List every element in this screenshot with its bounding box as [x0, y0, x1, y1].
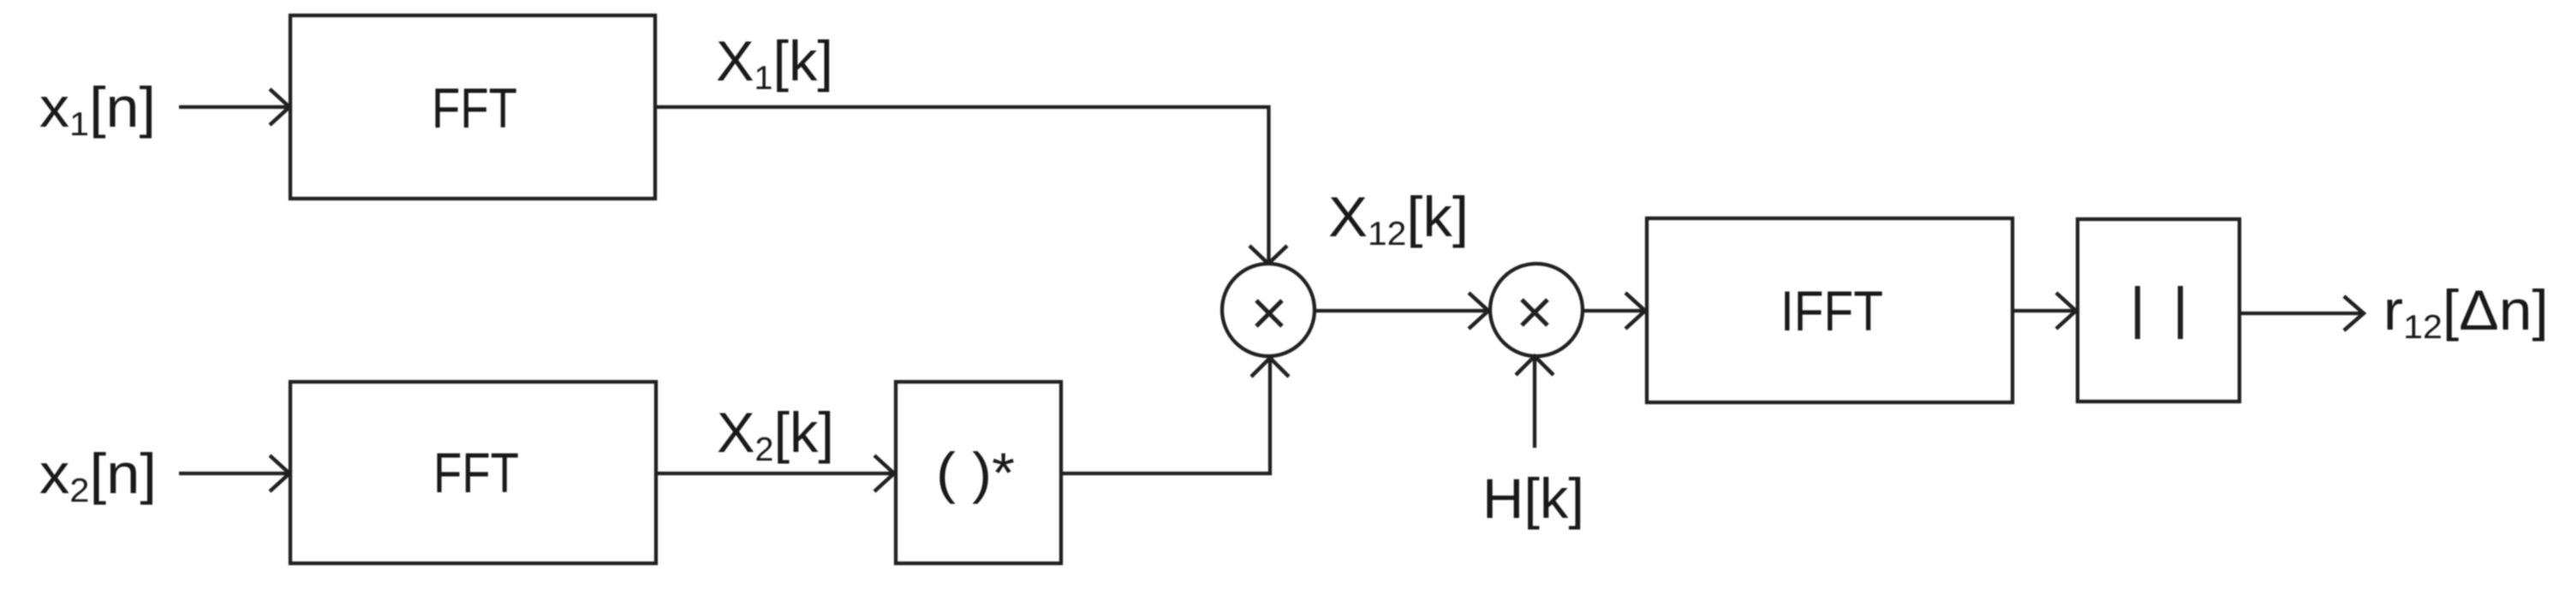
- svg-text:( )*: ( )*: [936, 441, 1015, 504]
- wire output arrow to r12: [2239, 296, 2364, 330]
- multiplier M1: [1222, 264, 1315, 356]
- wire FFT2 output to conjugate block: [656, 455, 894, 491]
- svg-text:FFT: FFT: [433, 441, 519, 504]
- svg-text:FFT: FFT: [432, 76, 517, 140]
- svg-text:r12[Δn]: r12[Δn]: [2383, 278, 2549, 346]
- wire H[k] into multiplier M2: [1516, 356, 1553, 448]
- wire FFT1 output to multiplier M1: [655, 107, 1287, 264]
- node r12[dn] output label: [2383, 278, 2549, 346]
- wire arrow x1[n] to FFT1: [179, 89, 289, 125]
- wire conjugate output up to multiplier M1: [1061, 358, 1289, 473]
- node x1[n] input label: [39, 75, 156, 143]
- svg-text:x1[n]: x1[n]: [39, 75, 156, 143]
- svg-text:H[k]: H[k]: [1482, 467, 1584, 530]
- svg-text:x2[n]: x2[n]: [39, 442, 157, 509]
- wire multiplier M1 to multiplier M2: [1315, 293, 1488, 329]
- block IFFT: [1647, 218, 2012, 402]
- node X12[k] label: [1328, 185, 1469, 253]
- svg-text:X12[k]: X12[k]: [1328, 185, 1469, 253]
- block conjugate ( )*: [896, 382, 1061, 563]
- block magnitude | |: [2078, 219, 2239, 402]
- block FFT1: [290, 15, 655, 199]
- node H[k] label: [1482, 467, 1584, 530]
- wire multiplier M2 to IFFT: [1583, 293, 1645, 329]
- block FFT2: [290, 382, 656, 563]
- svg-text:X1[k]: X1[k]: [716, 29, 833, 97]
- wire IFFT to magnitude block: [2012, 293, 2076, 329]
- wire arrow x2[n] to FFT2: [179, 455, 289, 491]
- node X1[k] label: [716, 29, 833, 97]
- multiplier M2: [1490, 264, 1583, 356]
- svg-text:X2[k]: X2[k]: [717, 401, 834, 468]
- svg-text:IFFT: IFFT: [1780, 279, 1883, 342]
- node x2[n] input label: [39, 442, 157, 509]
- node X2[k] label: [717, 401, 834, 468]
